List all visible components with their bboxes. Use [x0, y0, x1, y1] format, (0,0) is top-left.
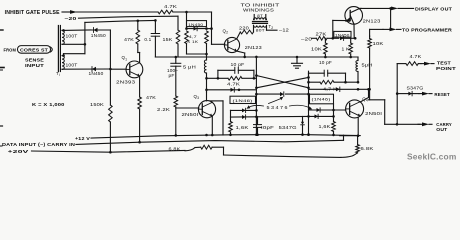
- resistor R-4.7K top: [158, 4, 177, 14]
- svg-text:4.7K: 4.7K: [164, 4, 177, 9]
- scan mark left edge 4: [0, 145, 2, 147]
- resistor 6.8K left: [169, 145, 213, 151]
- svg-text:220: 220: [239, 26, 250, 31]
- wire Q4 base: [344, 109, 347, 111]
- svg-text:INPUT: INPUT: [25, 63, 44, 68]
- wire Q1 emitter down: [139, 76, 141, 97]
- label T2: [269, 24, 274, 30]
- wire +20V rail: [8, 149, 185, 154]
- node dot D junction: [109, 68, 112, 71]
- svg-text:5347G: 5347G: [279, 125, 297, 130]
- label 5347G upper with leaders: [247, 97, 313, 110]
- wire T2 right lead -12: [267, 25, 290, 32]
- svg-text:DISPLAY OUT: DISPLAY OUT: [415, 6, 452, 12]
- svg-text:27K: 27K: [316, 31, 327, 36]
- wire Q4 collector node to carry: [369, 100, 397, 125]
- diode 5347G centre: [279, 117, 305, 135]
- diode 5347G reset: [397, 85, 432, 95]
- wire left pair join: [230, 110, 232, 121]
- wire T2 left lead to 220: [253, 25, 255, 32]
- transformer T2 winding bottom 80T: [254, 25, 267, 32]
- resistor 1K right branch: [205, 31, 209, 54]
- wire right diode row1 base: [309, 108, 346, 112]
- svg-text:TO PROGRAMMER: TO PROGRAMMER: [402, 27, 452, 33]
- ground symbol: [292, 56, 303, 68]
- diode D1 1N450 upper: [91, 28, 111, 38]
- svg-text:5 3 4 7 6: 5 3 4 7 6: [267, 105, 289, 110]
- inductor 5uH right: [356, 57, 373, 82]
- svg-text:K = X 1,000: K = X 1,000: [32, 102, 65, 107]
- resistor 4.7K test: [406, 54, 422, 66]
- label DISPLAY OUT: [415, 6, 452, 12]
- svg-text:1N450: 1N450: [89, 71, 105, 76]
- wire W1 top to diode line: [62, 29, 91, 31]
- label 100T lower: [66, 63, 78, 68]
- diode D2 1N450 lower: [62, 67, 110, 77]
- wire inhibit-gate-pulse arrow: [62, 10, 77, 14]
- svg-text:4.7K: 4.7K: [410, 54, 422, 59]
- wire Q3 emitter down: [211, 116, 213, 135]
- transformer T2 winding top 8T: [254, 13, 267, 19]
- svg-text:RESET: RESET: [434, 92, 450, 98]
- diode D3 1N450 boxed: [185, 21, 208, 31]
- label Q2: [223, 28, 229, 34]
- wire left diode row1: [231, 108, 257, 112]
- wire diode junction to Q1 base: [110, 68, 126, 70]
- label FROM: [4, 48, 17, 53]
- node dot emitter-data: [138, 141, 141, 144]
- watermark SeekIC.com: [407, 152, 456, 162]
- transformer T2 core: [253, 22, 268, 24]
- resistor 47K emitter: [138, 95, 156, 142]
- svg-text:+12 V: +12 V: [75, 136, 90, 141]
- wire common line y57: [155, 56, 358, 59]
- wire right rail y82.2: [309, 81, 360, 84]
- wire Q3T collector to display: [359, 7, 361, 9]
- wire Q1 collector up: [138, 53, 140, 63]
- svg-text:(1N46): (1N46): [312, 97, 332, 102]
- svg-text:2N50I: 2N50I: [182, 112, 199, 117]
- svg-text:I0pF: I0pF: [261, 125, 274, 130]
- resistor 1.6K left: [229, 122, 249, 135]
- label RESET: [434, 92, 450, 98]
- svg-text:10K: 10K: [311, 47, 322, 52]
- svg-text:–20: –20: [301, 37, 313, 42]
- label TO PROGRAMMER: [402, 27, 452, 33]
- svg-text:WINDINGS: WINDINGS: [243, 7, 274, 12]
- wire centre diode line y94: [256, 92, 308, 97]
- diode D4 1N450 boxed: [334, 31, 357, 40]
- wire +12V rail: [75, 133, 360, 141]
- svg-text:100T: 100T: [66, 34, 78, 39]
- transistor Q3 2N501 left: [198, 101, 215, 118]
- resistor 150K: [90, 69, 112, 152]
- svg-text:–20: –20: [65, 16, 77, 21]
- wire branch join y54: [187, 53, 208, 56]
- wire centre-tap lower jog to W2 top: [62, 54, 85, 57]
- svg-text:POINT: POINT: [436, 66, 456, 72]
- wire programmer corner down: [369, 29, 371, 36]
- transformer T1 core: [58, 26, 60, 72]
- wire right FF column: [307, 71, 310, 136]
- wire to-programmer line: [370, 28, 401, 32]
- label 2N501 left: [182, 112, 199, 117]
- wire Q3 collector node right: [210, 101, 223, 135]
- transformer T1 winding W1 100T: [62, 30, 64, 44]
- capacitor 0.1: [144, 20, 159, 57]
- wire left FF column: [255, 57, 258, 136]
- wire Q3T base from below: [353, 24, 355, 38]
- wire data input line: [76, 135, 344, 144]
- scan mark left edge 3: [0, 125, 3, 127]
- svg-text:47K: 47K: [146, 95, 156, 100]
- wire 27K to diode: [327, 37, 339, 40]
- label K = X 1000: [32, 102, 65, 107]
- svg-text:5μH: 5μH: [362, 62, 373, 67]
- wire W1 bottom to centre tap: [62, 43, 86, 46]
- wire line A dot branch down: [186, 12, 188, 29]
- svg-text:47K: 47K: [124, 37, 134, 42]
- wire carry line: [397, 123, 420, 125]
- resistor 15K: [163, 30, 180, 57]
- scan mark left edge 1: [0, 29, 3, 31]
- wire line C (centre-tap bus) y=20.5: [85, 19, 157, 22]
- svg-text:4.7K: 4.7K: [227, 81, 240, 86]
- wire display to programmer drop: [390, 8, 392, 29]
- label DATA INPUT CARRY IN: [2, 142, 76, 147]
- svg-text:10 pF: 10 pF: [231, 62, 245, 67]
- capacitor 10pF right bridge: [309, 60, 347, 83]
- wire right diode row2 midrail: [309, 114, 335, 118]
- svg-text:6.8K: 6.8K: [169, 146, 181, 151]
- wire line A corner down to Q2 base: [212, 12, 225, 44]
- label 2N501 right: [365, 111, 382, 116]
- transistor Q3 2N123 top: [345, 7, 363, 25]
- capacitor 10pF centre: [254, 117, 275, 135]
- wire test arrow: [418, 62, 434, 66]
- wire Q2 collector up: [237, 32, 241, 39]
- node dot 150K to +20V rail: [109, 151, 112, 154]
- wire Q2 emitter: [237, 51, 245, 57]
- wire cross diagonal 1: [256, 76, 308, 88]
- label 100T upper: [66, 34, 78, 39]
- svg-text:100T: 100T: [66, 63, 78, 68]
- svg-text:150K: 150K: [90, 102, 104, 107]
- wire left rail y78.3: [207, 77, 257, 79]
- label INHIBIT GATE PULSE: [5, 10, 61, 16]
- wire line A after resistor: [173, 11, 212, 14]
- svg-text:8T: 8T: [257, 13, 263, 18]
- wire left diode row2 mid-rail: [231, 115, 257, 119]
- svg-text:1 K: 1 K: [342, 46, 350, 51]
- wire line A (inhibit pulse bus) y=12: [76, 11, 158, 13]
- svg-text:2N50I: 2N50I: [365, 111, 382, 116]
- diode D6 right coupling: [309, 87, 370, 92]
- transistor Q2 2N123: [224, 37, 239, 52]
- svg-text:2N393: 2N393: [116, 80, 136, 85]
- capacitor 10pF left bridge: [217, 62, 256, 80]
- wire display arrow: [391, 7, 414, 11]
- wire output bus column: [396, 64, 399, 126]
- svg-text:1N450: 1N450: [91, 33, 107, 38]
- resistor 4.7K left FF: [227, 77, 242, 87]
- wire line A junction dot2: [207, 27, 213, 30]
- transformer T1 winding W2 100T: [62, 56, 64, 70]
- svg-text:80T: 80T: [256, 28, 265, 33]
- label 1N461 right box: [310, 94, 334, 104]
- resistor 10K right: [368, 36, 384, 100]
- svg-text:S347G: S347G: [407, 85, 425, 90]
- transistor Q4 2N501 right: [346, 100, 364, 118]
- svg-text:pF: pF: [169, 73, 175, 78]
- svg-text:(1N46): (1N46): [233, 98, 254, 103]
- resistor 4.7K right FF: [320, 80, 337, 91]
- label T1: [56, 71, 60, 77]
- svg-text:DATA INPUT (–) CARRY IN: DATA INPUT (–) CARRY IN: [2, 142, 76, 147]
- svg-text:10K: 10K: [373, 41, 384, 46]
- svg-text:2N123: 2N123: [245, 45, 263, 50]
- label Q3: [194, 94, 200, 100]
- wire 5uH node dot: [205, 77, 208, 80]
- label 2N123 top: [363, 18, 382, 23]
- svg-text:1N450: 1N450: [335, 32, 350, 37]
- svg-text:2N123: 2N123: [363, 18, 382, 23]
- svg-text:5 μH: 5 μH: [183, 65, 196, 70]
- node dot W1 top: [62, 29, 65, 32]
- diode D5 left coupling: [207, 88, 257, 93]
- label SENSE INPUT: [25, 58, 44, 68]
- resistor 27K: [316, 31, 328, 40]
- wire mid-rail centre: [256, 115, 308, 117]
- wire display line: [361, 7, 392, 10]
- svg-text:X 1K: X 1K: [187, 39, 198, 44]
- label -20 right: [301, 37, 313, 42]
- wire Q4 collector up: [360, 89, 368, 102]
- label Q4: [362, 96, 368, 102]
- wire +20V jog up: [185, 148, 195, 151]
- resistor 6.8K right: [356, 134, 374, 152]
- svg-text:0.1: 0.1: [144, 37, 151, 42]
- capacitor 100pF: [167, 57, 181, 96]
- svg-text:INHIBIT GATE PULSE: INHIBIT GATE PULSE: [5, 10, 61, 16]
- svg-text:1N450: 1N450: [188, 22, 204, 27]
- svg-text:OUT: OUT: [436, 127, 447, 133]
- svg-text:SeekIC.com: SeekIC.com: [407, 152, 456, 162]
- label 1N461 left: [230, 96, 256, 103]
- wire line B (-20 bus) y=17: [79, 16, 179, 30]
- svg-text:TEST: TEST: [437, 60, 451, 66]
- svg-text:4,7: 4,7: [189, 34, 197, 39]
- wire -20 feed: [312, 37, 317, 39]
- wire test point line: [397, 63, 406, 65]
- wire cross diagonal 2: [256, 77, 308, 87]
- wire Q4 emitter down: [340, 118, 359, 136]
- svg-text:+20V: +20V: [8, 149, 29, 154]
- svg-text:1,6K: 1,6K: [319, 124, 331, 129]
- wire carry arrow: [418, 122, 432, 126]
- wire Q3T emitter line: [333, 20, 346, 38]
- callout bubble CORES ST: [18, 46, 53, 54]
- label -20 left: [65, 16, 77, 21]
- resistor 1K: [342, 38, 353, 57]
- label TEST POINT: [436, 60, 456, 72]
- wire Q3 collector: [206, 92, 208, 101]
- transistor Q1 2N393: [126, 61, 143, 78]
- resistor 220: [239, 26, 254, 34]
- wire centre-tap vertical: [84, 22, 86, 53]
- label TO INHIBIT WINDINGS: [241, 2, 280, 12]
- svg-text:6.8K: 6.8K: [361, 146, 374, 151]
- label Q1: [122, 55, 128, 61]
- wire right box drop: [333, 104, 335, 122]
- svg-text:1,6K: 1,6K: [236, 125, 249, 130]
- label 2N123: [245, 45, 263, 50]
- svg-text:10 pF: 10 pF: [319, 60, 332, 65]
- svg-text:2.2K: 2.2K: [157, 107, 170, 112]
- svg-text:15K: 15K: [163, 37, 173, 42]
- resistor 47K collector: [124, 21, 140, 53]
- wire D1 corner down: [109, 30, 111, 69]
- svg-text:–12: –12: [279, 28, 290, 33]
- wire Q3 base lead: [176, 107, 199, 109]
- wire +20V continue: [212, 147, 358, 157]
- resistor 4.7 left branch: [185, 31, 199, 54]
- label 2N393: [116, 80, 136, 85]
- resistor 1.6K right: [319, 122, 336, 137]
- inductor 5uH left: [183, 54, 207, 78]
- label CARRY OUT: [436, 122, 452, 133]
- resistor 10K left: [311, 38, 327, 57]
- svg-text:CORES ST: CORES ST: [20, 47, 48, 52]
- svg-text:FROM: FROM: [4, 48, 17, 53]
- scan mark left edge 2: [0, 68, 4, 71]
- resistor 2.2K: [157, 96, 178, 135]
- wire collector column left: [205, 78, 208, 92]
